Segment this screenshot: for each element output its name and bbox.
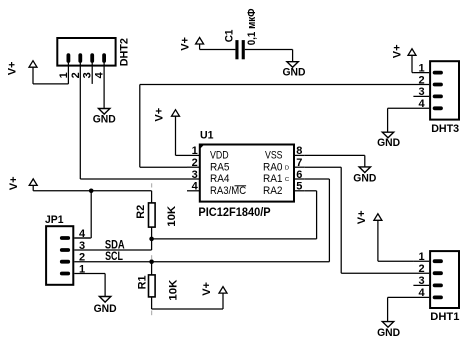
- ground (DHT2): [99, 109, 110, 115]
- svg-text:1: 1: [418, 251, 424, 263]
- U1 pin 5 lead: [294, 190, 305, 192]
- JP1 pin 3: [62, 248, 68, 252]
- svg-text:GND: GND: [93, 113, 116, 125]
- U1 pin 7 lead: [294, 166, 305, 168]
- svg-text:RA0: RA0: [263, 161, 283, 173]
- wire U1 pin8 (VSS) to GND: [305, 155, 365, 167]
- wire V+ rail: [33, 190, 151, 192]
- power V+ (DHT3): [408, 49, 416, 73]
- svg-text:GND: GND: [283, 67, 306, 79]
- DHT2 pin numbers: [58, 71, 106, 78]
- svg-text:4: 4: [192, 181, 199, 193]
- svg-text:4: 4: [418, 287, 425, 299]
- DHT3 pin 4: [388, 106, 441, 110]
- svg-text:DHT2: DHT2: [118, 38, 130, 66]
- svg-text:DHT1: DHT1: [430, 311, 459, 323]
- U1 pin 1 lead: [187, 154, 200, 156]
- svg-text:V+: V+: [356, 210, 368, 224]
- svg-text:0,1 мкФ: 0,1 мкФ: [246, 9, 258, 46]
- wire C1 left: [200, 49, 236, 51]
- U1 pin 8 lead: [294, 154, 305, 156]
- svg-text:R1: R1: [137, 275, 149, 289]
- svg-text:1: 1: [192, 145, 198, 157]
- svg-text:V+: V+: [179, 37, 191, 51]
- svg-text:V+: V+: [201, 282, 213, 296]
- U1 left pin numbers: [192, 145, 199, 192]
- svg-text:V+: V+: [7, 62, 19, 76]
- DHT1 pin 2: [435, 271, 441, 275]
- power V+ (R1): [219, 287, 227, 294]
- svg-text:D: D: [285, 165, 289, 171]
- wire C1 right to GND: [245, 50, 293, 62]
- svg-text:2: 2: [418, 263, 424, 275]
- wire V+ to DHT2 pin1: [33, 83, 68, 85]
- svg-text:3: 3: [82, 72, 94, 78]
- connector DHT2: [57, 38, 115, 66]
- U1 pin 6 lead: [294, 178, 305, 180]
- svg-text:VSS: VSS: [265, 150, 283, 162]
- svg-text:U1: U1: [200, 130, 214, 142]
- power V+ (DHT2): [29, 61, 37, 84]
- svg-text:C1: C1: [224, 30, 236, 43]
- wire DHT3 pin4 to GND: [387, 108, 389, 132]
- svg-text:3: 3: [192, 169, 198, 181]
- wire DHT1 pin4 to GND: [387, 297, 389, 321]
- power V+ (DHT1): [374, 214, 414, 261]
- wire SCL net: [74, 179, 329, 262]
- wire U1 pin2 (RA5) to DHT3 pin2: [140, 85, 429, 168]
- JP1 pin 1: [62, 274, 105, 297]
- svg-text:4: 4: [94, 71, 106, 78]
- svg-text:V+: V+: [392, 44, 404, 58]
- wire SDA net: [74, 191, 316, 250]
- U1 right pin numbers: [296, 145, 302, 192]
- resistor R1: [149, 262, 156, 309]
- svg-text:2: 2: [79, 252, 85, 264]
- JP1 pin 2: [62, 260, 68, 264]
- DHT3 pin 2: [435, 83, 441, 87]
- DHT1 pin 1: [413, 259, 441, 263]
- svg-text:VDD: VDD: [210, 150, 229, 162]
- svg-text:RA5: RA5: [210, 161, 230, 173]
- svg-text:SCL: SCL: [105, 249, 123, 263]
- svg-text:2: 2: [192, 157, 198, 169]
- svg-text:GND: GND: [94, 303, 117, 315]
- svg-text:1: 1: [58, 72, 70, 78]
- svg-text:RA3/MC: RA3/MC: [210, 185, 246, 197]
- DHT2 pin 2: [78, 55, 82, 61]
- svg-text:DHT3: DHT3: [431, 123, 459, 135]
- svg-text:6: 6: [296, 169, 302, 181]
- svg-text:3: 3: [418, 86, 424, 98]
- svg-text:10K: 10K: [168, 279, 180, 301]
- DHT1 pin 3: [413, 283, 441, 287]
- DHT1 pin 4: [388, 295, 441, 299]
- connector DHT1: [430, 251, 459, 308]
- DHT3 pin numbers: [418, 62, 425, 110]
- U1 pin 4 lead: [187, 190, 200, 192]
- wire V+ to U1 pin1: [176, 154, 188, 156]
- svg-text:8: 8: [296, 145, 302, 157]
- power V+ (U1 pin1): [172, 110, 180, 156]
- svg-text:V+: V+: [8, 176, 20, 190]
- ground (U1): [359, 167, 370, 173]
- capacitor C1: [235, 40, 244, 59]
- DHT2 pin 4: [102, 55, 106, 108]
- ground (JP1): [99, 297, 110, 303]
- svg-text:3: 3: [418, 275, 424, 287]
- svg-text:4: 4: [418, 98, 425, 110]
- svg-text:V+: V+: [153, 108, 165, 122]
- DHT1 pin numbers: [418, 251, 425, 299]
- power V+ (C1): [196, 38, 204, 50]
- resistor R2: [149, 191, 156, 239]
- ground (DHT3): [382, 132, 393, 138]
- U1 pin 2 lead: [187, 166, 200, 168]
- DHT3 pin 1: [413, 71, 441, 75]
- svg-text:1: 1: [79, 263, 85, 275]
- node R2/SDA junction: [149, 237, 154, 242]
- node rail/JP1 junction: [89, 189, 94, 194]
- svg-text:RA4: RA4: [210, 173, 230, 185]
- node SCL/R1 junction: [149, 259, 154, 264]
- ground (C1): [287, 62, 298, 68]
- svg-text:2: 2: [418, 74, 424, 86]
- wire U1 pin7 (RA0) to DHT1 pin2: [305, 167, 429, 273]
- IC U1 PIC12F1840: [199, 144, 294, 202]
- svg-text:4: 4: [79, 228, 86, 240]
- svg-text:3: 3: [79, 240, 85, 252]
- U1 pin names right: [263, 150, 283, 197]
- svg-text:2: 2: [70, 72, 82, 78]
- svg-text:GND: GND: [377, 327, 400, 339]
- svg-text:JP1: JP1: [45, 214, 64, 226]
- connector JP1: [46, 226, 73, 285]
- connector DHT3: [430, 61, 459, 119]
- svg-text:5: 5: [296, 181, 302, 193]
- JP1 pin numbers: [79, 228, 86, 275]
- svg-text:1: 1: [418, 62, 424, 74]
- svg-text:R2: R2: [135, 205, 147, 219]
- svg-text:7: 7: [296, 157, 302, 169]
- wire JP1 pin4 riser: [74, 191, 91, 238]
- DHT2 pin 3: [90, 55, 94, 84]
- JP1 pin 4: [62, 236, 90, 240]
- DHT2 pin 1: [67, 55, 71, 84]
- overline MC: [235, 185, 247, 187]
- wire stub gray R2: [151, 183, 153, 187]
- svg-text:10K: 10K: [166, 205, 178, 227]
- U1 pin names left: [210, 150, 246, 197]
- wire stub gray R1 bottom: [151, 311, 153, 316]
- svg-text:GND: GND: [377, 137, 400, 149]
- svg-text:PIC12F1840/P: PIC12F1840/P: [198, 207, 271, 219]
- svg-text:RA2: RA2: [263, 185, 283, 197]
- svg-text:RA1: RA1: [263, 173, 283, 185]
- svg-text:C: C: [285, 177, 289, 183]
- wire U1 pin3 (RA4) to DHT2 pin2: [80, 61, 187, 179]
- DHT3 pin 3: [413, 95, 441, 99]
- wire stub gray R1 top: [151, 255, 153, 259]
- power V+ (rail): [29, 179, 37, 191]
- U1 pin 3 lead: [187, 178, 200, 180]
- ground (DHT1): [382, 322, 393, 328]
- svg-text:GND: GND: [353, 173, 376, 185]
- wire R1 to V+: [152, 293, 223, 309]
